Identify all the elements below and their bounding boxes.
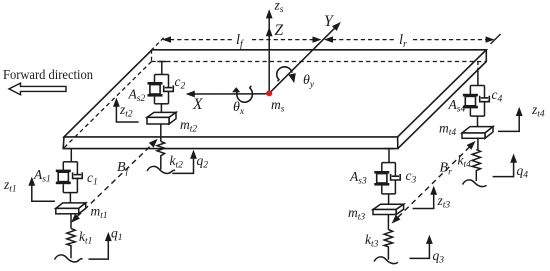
track width arrow B_f <box>69 136 161 225</box>
label m_t4 <box>439 121 456 139</box>
axis Z arrowhead <box>266 27 273 36</box>
svg-text:Y: Y <box>324 13 334 30</box>
bottom bar s1 <box>63 192 77 194</box>
link mass-to-spring s1 <box>70 214 72 229</box>
bottom bar s4 <box>470 115 484 117</box>
label A_s3 <box>349 169 367 187</box>
displacement arrow z_t1 <box>28 177 55 202</box>
damper c1 <box>73 162 83 193</box>
ground under wheel 3 <box>374 257 398 264</box>
tire spring k_t2 <box>157 141 165 169</box>
dimension extension tick left <box>151 36 166 51</box>
label k_t1 <box>79 229 92 247</box>
label q1 <box>111 226 123 244</box>
plate front face <box>63 137 398 149</box>
damper c3 <box>391 163 401 194</box>
label c3 <box>406 168 417 186</box>
road input arrow q3 <box>410 235 433 259</box>
label Y <box>324 13 334 30</box>
label z_t3 <box>437 193 451 211</box>
damper c4 <box>480 86 490 117</box>
sprung mass CG red dot <box>266 90 272 96</box>
label z_t2 <box>119 102 133 120</box>
svg-text:Z: Z <box>275 22 284 39</box>
forward direction label <box>3 68 93 83</box>
label theta_y <box>303 73 315 90</box>
label q4 <box>517 163 529 181</box>
road input arrow q4 <box>493 154 517 177</box>
tire spring k_t4 <box>472 150 480 182</box>
air spring A_s1 <box>56 162 71 193</box>
axis z_s <box>266 9 273 93</box>
label A_s2 <box>128 87 146 105</box>
plate hidden bottom-left edge <box>63 62 151 149</box>
label l_r <box>399 32 407 50</box>
top bar s4 <box>470 85 484 87</box>
top bar s1 <box>63 161 77 163</box>
label q2 <box>197 153 209 171</box>
wheel mass m_t2 box <box>147 112 176 124</box>
label m_t2 <box>180 117 197 135</box>
link mass-to-spring s3 <box>387 215 389 230</box>
ground under wheel 1 <box>55 255 83 262</box>
label Z <box>275 22 284 39</box>
label z_t4 <box>531 102 545 120</box>
label l_f <box>236 32 244 50</box>
svg-text:Forward direction: Forward direction <box>3 68 93 83</box>
link bar-to-mass s2 <box>160 104 162 113</box>
label c2 <box>175 74 186 92</box>
label m_s <box>271 97 285 115</box>
dimension extension tick right <box>491 34 501 44</box>
air spring A_s2 <box>148 75 163 104</box>
strut wire s4 <box>477 62 479 86</box>
bottom bar s2 <box>155 103 169 105</box>
label k_t4 <box>458 153 472 171</box>
strut wire s1 <box>70 149 72 162</box>
rotation arc theta_y <box>277 67 298 84</box>
axis X <box>186 91 270 98</box>
wheel mass m_t1 box <box>56 203 86 214</box>
road input arrow q1 <box>89 232 112 259</box>
vehicle body plate top face <box>64 50 486 137</box>
label c4 <box>492 87 503 105</box>
ground under wheel 2 <box>147 166 175 173</box>
ground under wheel 4 <box>463 180 487 187</box>
plate hidden back-left vertical edge <box>151 50 153 62</box>
label k_t2 <box>170 153 184 171</box>
dimension line l_f <box>162 36 322 42</box>
strut wire s2 <box>157 62 166 75</box>
label theta_x <box>233 100 245 117</box>
wheel mass m_t4 box <box>462 127 493 139</box>
forward direction hollow arrow <box>9 83 66 95</box>
plate hidden bottom-back edge <box>152 61 487 63</box>
air spring A_s3 <box>374 163 389 194</box>
track width arrow B_r <box>389 138 478 226</box>
displacement arrow z_t3 <box>413 186 438 209</box>
label k_t3 <box>365 232 379 250</box>
svg-text:X: X <box>192 96 203 113</box>
air spring A_s4 <box>463 86 478 117</box>
top bar s2 <box>155 74 169 76</box>
displacement arrow z_t2 <box>113 98 139 122</box>
link mass-to-spring s2 <box>160 124 162 141</box>
dimension line l_r <box>324 36 495 42</box>
rotation arc theta_x <box>232 86 252 102</box>
tire spring k_t1 <box>67 228 75 258</box>
label c1 <box>87 170 98 188</box>
label A_s4 <box>448 97 466 115</box>
damper c2 <box>164 75 174 104</box>
road input arrow q2 <box>172 150 197 174</box>
link bar-to-mass s4 <box>477 116 479 127</box>
link bar-to-mass s1 <box>69 193 71 203</box>
label z_t1 <box>3 177 17 195</box>
wheel mass m_t3 box <box>373 204 404 214</box>
axis Y <box>269 20 343 94</box>
label B_f <box>117 160 130 177</box>
link mass-to-spring s4 <box>477 138 479 149</box>
plate right face <box>398 50 487 149</box>
label X <box>192 96 203 113</box>
label m_t1 <box>91 204 108 222</box>
bottom bar s3 <box>382 193 396 195</box>
label q3 <box>433 248 445 266</box>
label z_s <box>274 0 284 15</box>
label m_t3 <box>348 205 365 223</box>
displacement arrow z_t4 <box>498 107 523 132</box>
link bar-to-mass s3 <box>388 194 390 205</box>
tire spring k_t3 <box>384 230 392 260</box>
strut wire s3 <box>385 149 395 163</box>
top bar s3 <box>382 162 396 164</box>
label A_s1 <box>33 167 51 185</box>
label B_r <box>440 161 453 178</box>
